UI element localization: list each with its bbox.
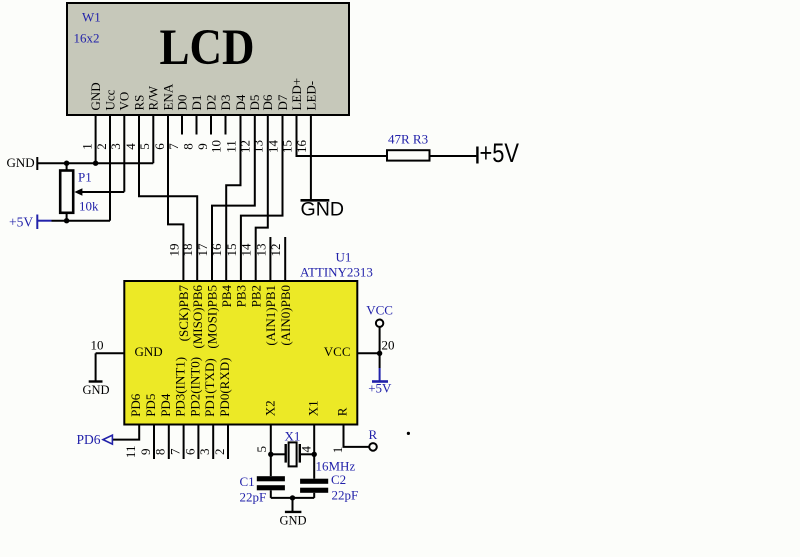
potentiometer P1 body	[60, 171, 73, 213]
VCC stem	[379, 327, 381, 353]
stub U1 pin12 PB0	[284, 237, 286, 281]
svg-text:D4: D4	[233, 94, 248, 110]
wire LCD pin1 GND down	[95, 115, 97, 163]
crystal X1 body	[289, 442, 297, 466]
svg-text:GND: GND	[135, 344, 163, 359]
svg-text:X2: X2	[262, 400, 277, 416]
P1 wiper arrow	[74, 188, 82, 196]
svg-text:18: 18	[180, 244, 195, 257]
svg-text:14: 14	[239, 243, 254, 257]
stray dot	[407, 432, 410, 435]
svg-text:PD2(INT0): PD2(INT0)	[187, 357, 202, 417]
ground bar LED-	[301, 199, 330, 202]
junction caps gnd	[290, 495, 295, 500]
wire U1 X1 down	[313, 425, 315, 479]
stub LCD pin10 D3	[225, 115, 227, 135]
wire X2 to crystal	[271, 453, 286, 455]
stub LCD pin7 D0	[181, 115, 183, 135]
svg-text:GND: GND	[301, 200, 345, 221]
wire caps gnd rail	[271, 497, 314, 499]
svg-text:PD1(TXD): PD1(TXD)	[202, 358, 217, 417]
svg-text:GND: GND	[83, 383, 110, 397]
resistor R3 body	[387, 150, 430, 160]
+5V terminal tick	[476, 147, 478, 164]
wire C1 bottom	[270, 490, 272, 498]
junction pot top	[64, 161, 69, 166]
stub U1 bottom pin x=228.0	[227, 425, 229, 459]
wire U1 pin11 PD6	[112, 425, 139, 440]
wire wiper to VO	[81, 191, 124, 193]
wire LCD pin14 D7 to MCU pin15	[241, 115, 283, 281]
svg-text:VO: VO	[117, 92, 132, 111]
svg-text:GND: GND	[88, 82, 103, 110]
svg-text:(SCK)PB7: (SCK)PB7	[176, 285, 191, 342]
junction X1	[312, 452, 317, 457]
junction pin20	[377, 351, 382, 356]
svg-text:8: 8	[180, 143, 195, 150]
stub LCD pin8 D1	[196, 115, 198, 135]
+5V rail	[52, 220, 111, 222]
stub U1 bottom pin x=198.4	[197, 425, 199, 459]
svg-text:16x2: 16x2	[74, 31, 100, 46]
svg-text:LCD: LCD	[160, 19, 255, 75]
wire LCD pin15 LED+ down	[296, 115, 298, 156]
svg-text:D1: D1	[189, 95, 204, 111]
svg-text:PD4: PD4	[158, 393, 173, 417]
svg-text:1: 1	[80, 143, 95, 150]
svg-text:+5V: +5V	[9, 215, 33, 230]
svg-text:11: 11	[223, 140, 238, 153]
stub U1 pin13 PB1	[269, 237, 271, 281]
wire LCD pin12 D5 to MCU pin17	[212, 115, 255, 281]
GND stem pin10	[95, 353, 97, 381]
capacitor C1 top plate	[257, 476, 285, 481]
svg-text:13: 13	[253, 244, 268, 257]
svg-text:15: 15	[224, 244, 239, 257]
junction pot bottom	[64, 218, 69, 223]
svg-text:10: 10	[91, 338, 104, 353]
svg-text:9: 9	[138, 449, 153, 456]
+5V rail blue segment	[37, 220, 51, 222]
svg-text:19: 19	[166, 244, 181, 257]
wire PD6 blue segment	[111, 439, 112, 441]
PD6 arrow	[103, 435, 112, 444]
svg-text:R/W: R/W	[146, 85, 161, 110]
svg-text:10: 10	[208, 140, 223, 153]
GND left terminal tick	[36, 157, 38, 170]
svg-text:C1: C1	[240, 474, 255, 489]
ground bar pin10	[89, 380, 103, 382]
svg-text:D0: D0	[174, 95, 189, 111]
svg-text:PD3(INT1): PD3(INT1)	[173, 357, 188, 417]
junction X2	[268, 452, 273, 457]
junction pin1/GND rail	[93, 161, 98, 166]
svg-text:47R R3: 47R R3	[388, 132, 428, 147]
svg-text:PD6: PD6	[77, 432, 101, 447]
svg-text:LED-: LED-	[303, 81, 318, 111]
U1 pin10 GND wire	[96, 352, 125, 354]
stub U1 bottom pin x=183.6	[183, 425, 185, 459]
svg-text:11: 11	[123, 446, 138, 459]
svg-text:C2: C2	[331, 472, 346, 487]
svg-text:VCC: VCC	[324, 344, 351, 359]
LCD module W1 body	[67, 3, 349, 115]
capacitor C1 bottom plate	[257, 485, 285, 490]
svg-text:GND: GND	[280, 514, 307, 528]
svg-text:PB3: PB3	[234, 285, 249, 307]
+5V stem blue	[379, 368, 381, 382]
svg-text:+5V: +5V	[368, 381, 392, 396]
svg-text:16: 16	[209, 243, 224, 257]
svg-text:X1: X1	[285, 429, 301, 444]
wire LCD pin5 R/W down	[152, 115, 154, 163]
wire LCD pin16 LED- down	[310, 115, 312, 200]
svg-text:(AIN1)PB1: (AIN1)PB1	[263, 285, 278, 346]
wire R3 to +5V	[430, 155, 477, 157]
svg-text:13: 13	[251, 140, 266, 153]
wire C2 bottom	[313, 493, 315, 498]
svg-text:(AIN0)PB0: (AIN0)PB0	[278, 285, 293, 346]
wire LCD pin4 RS down	[139, 115, 197, 281]
wire LCD pin13 D6 to MCU pin14	[256, 115, 268, 281]
svg-text:22pF: 22pF	[332, 488, 359, 503]
svg-text:17: 17	[195, 243, 210, 257]
svg-text:P1: P1	[78, 170, 92, 185]
svg-text:(MISO)PB6: (MISO)PB6	[190, 285, 205, 349]
svg-text:R: R	[369, 427, 378, 442]
svg-text:PB4: PB4	[219, 285, 234, 308]
gnd stem caps	[292, 498, 294, 512]
svg-text:PD6: PD6	[128, 393, 143, 417]
svg-text:ATTINY2313: ATTINY2313	[300, 265, 373, 280]
svg-text:+5V: +5V	[480, 138, 520, 168]
capacitor C2 top plate	[300, 479, 328, 484]
reset connector circle	[369, 443, 377, 451]
U1 pin20 VCC wire	[357, 352, 379, 354]
wire U1 X2 down	[270, 425, 272, 476]
svg-text:PD0(RXD): PD0(RXD)	[217, 358, 232, 417]
svg-text:R: R	[335, 407, 350, 416]
svg-text:X1: X1	[306, 400, 321, 416]
potentiometer P1 bottom stem	[66, 213, 68, 221]
svg-text:W1: W1	[82, 10, 101, 25]
stub LCD pin9 D2	[210, 115, 212, 135]
svg-text:22pF: 22pF	[240, 490, 267, 505]
svg-text:D3: D3	[218, 95, 233, 111]
+5V bar	[372, 380, 388, 383]
svg-text:D6: D6	[260, 94, 275, 110]
potentiometer P1 top stem	[66, 163, 68, 170]
svg-text:D2: D2	[203, 95, 218, 111]
svg-text:U1: U1	[336, 250, 352, 265]
stub U1 bottom pin x=154.0	[153, 425, 155, 459]
wire LCD pin3 VO down	[123, 115, 125, 192]
svg-text:20: 20	[382, 338, 395, 353]
svg-text:ENA: ENA	[160, 83, 175, 110]
wire LED+ to R3	[296, 155, 388, 157]
wire LCD pin6 ENA down	[168, 115, 183, 281]
wire LCD pin2 Ucc down	[109, 115, 111, 221]
svg-text:PD5: PD5	[143, 394, 158, 417]
wire LCD pin11 D4 to MCU pin16	[226, 115, 240, 281]
IC U1 ATTINY2313 body	[124, 281, 357, 425]
svg-text:LED+: LED+	[289, 78, 304, 111]
svg-text:5: 5	[254, 446, 269, 453]
+5V stem black	[379, 353, 381, 368]
svg-text:(MOSI)PB5: (MOSI)PB5	[205, 285, 220, 349]
svg-text:D7: D7	[275, 94, 290, 110]
svg-text:VCC: VCC	[366, 303, 393, 318]
wire U1 R pin	[344, 425, 370, 447]
capacitor C2 bottom plate	[300, 488, 328, 493]
svg-text:PB2: PB2	[248, 285, 263, 307]
stub U1 bottom pin x=168.8	[168, 425, 170, 459]
crystal X1 left plate	[285, 444, 287, 463]
svg-text:GND: GND	[7, 155, 35, 170]
GND rail	[37, 162, 153, 164]
+5V left terminal tick	[36, 215, 38, 230]
VCC circle	[376, 320, 383, 327]
crystal X1 right plate	[299, 444, 301, 463]
svg-text:RS: RS	[131, 95, 146, 111]
wire crystal to X1 pin	[300, 453, 314, 455]
svg-text:10k: 10k	[79, 199, 99, 214]
svg-text:Ucc: Ucc	[102, 89, 117, 110]
stub U1 bottom pin x=213.2	[212, 425, 214, 459]
ground bar caps	[285, 511, 302, 513]
